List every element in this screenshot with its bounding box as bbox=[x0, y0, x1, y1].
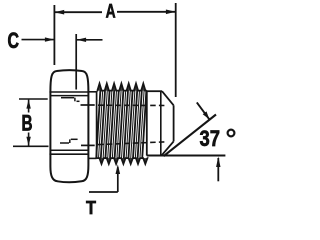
hidden bore hook top bbox=[74, 98, 76, 102]
hidden bore dash top 1 bbox=[61, 97, 74, 99]
degree symbol bbox=[228, 130, 235, 137]
hidden bore hook bottom bbox=[69, 139, 71, 143]
svg-text:T: T bbox=[86, 198, 96, 218]
hex bottom face line 1 bbox=[50, 149, 88, 151]
hidden bore dash top 3 bbox=[81, 104, 95, 106]
thread crest zigzag bottom bbox=[97, 158, 148, 164]
dimension B line lower segment bbox=[28, 133, 30, 146]
hidden bore dash top 2 bbox=[77, 100, 80, 102]
nose bottom chamfer bbox=[162, 141, 174, 155]
nose top chamfer bbox=[162, 91, 174, 105]
T leader horizontal bbox=[89, 191, 118, 193]
hidden bore dash bottom 2 bbox=[71, 138, 78, 140]
dimension A extension line left bbox=[53, 5, 55, 65]
thread crest zigzag top bbox=[97, 84, 147, 91]
nose bottom edge and angle base line bbox=[147, 155, 226, 157]
dimension B arrowhead up bbox=[26, 99, 30, 108]
svg-text:A: A bbox=[106, 2, 116, 23]
shoulder top edge bbox=[88, 91, 96, 93]
svg-text:C: C bbox=[8, 28, 20, 53]
dimension A arrowhead left bbox=[54, 10, 64, 15]
dimension A line right segment bbox=[117, 11, 176, 13]
hex head outline bbox=[50, 70, 88, 182]
hex top face line 2 bbox=[50, 95, 88, 97]
thread minor-dia dashed line bottom bbox=[98, 142, 167, 145]
nose internal vertical bbox=[160, 91, 162, 155]
svg-text:37: 37 bbox=[200, 126, 221, 151]
dimension C leader left arrow bbox=[22, 39, 55, 41]
dimension B line upper segment bbox=[28, 100, 30, 113]
nose right face bbox=[173, 105, 175, 141]
nose thread-end vertical bbox=[146, 91, 148, 155]
dimension B top extension line bbox=[19, 98, 48, 100]
hex top face line 1 bbox=[49, 91, 88, 93]
shoulder bottom edge bbox=[88, 157, 96, 159]
dimension B bottom extension line bbox=[13, 145, 49, 147]
thread flank lines bbox=[96, 90, 146, 158]
thread start vertical bbox=[96, 91, 98, 158]
37 degree slant line bbox=[164, 115, 217, 157]
dimension C right arrow bbox=[77, 39, 103, 41]
T leader arrowhead bbox=[116, 164, 121, 174]
svg-text:B: B bbox=[22, 110, 33, 135]
T leader vertical bbox=[117, 167, 119, 192]
dimension A arrowhead right bbox=[166, 10, 176, 15]
dimension A extension line right bbox=[175, 3, 177, 97]
dimension A line left segment bbox=[54, 11, 102, 13]
thread minor-dia dashed line top bbox=[98, 104, 167, 106]
dimension B arrowhead down bbox=[26, 137, 30, 146]
37 degree leader arrowhead bbox=[203, 111, 210, 119]
37 degree leader arrow stub bbox=[197, 102, 210, 119]
hidden bore dash bottom 3 bbox=[81, 144, 95, 146]
nose top edge bbox=[147, 90, 162, 92]
dimension C extension line bbox=[75, 34, 77, 90]
up arrow at angle base bbox=[217, 158, 219, 181]
hidden bore dash bottom 1 bbox=[60, 142, 69, 144]
hex bottom face line 2 bbox=[49, 153, 88, 155]
